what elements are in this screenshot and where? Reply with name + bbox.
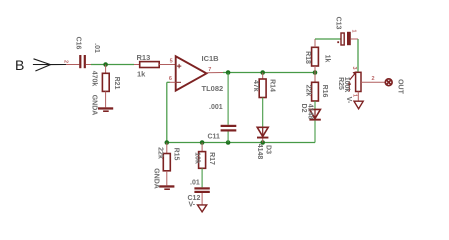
resistor R21 bbox=[105, 65, 107, 74]
svg-text:2: 2 bbox=[63, 60, 69, 63]
wire bottom feedback net bbox=[167, 142, 315, 144]
svg-text:R15: R15 bbox=[173, 148, 180, 161]
svg-text:R25: R25 bbox=[337, 77, 344, 90]
wire R25 wiper to OUT bbox=[361, 81, 385, 83]
svg-text:TL082: TL082 bbox=[202, 84, 224, 93]
svg-text:47k: 47k bbox=[252, 80, 259, 92]
node junction C11 bottom bbox=[226, 140, 231, 145]
node junction R17 bbox=[200, 140, 205, 145]
node junction D3 bbox=[260, 140, 265, 145]
wire feedback vertical bbox=[166, 82, 168, 142]
svg-text:D3: D3 bbox=[265, 145, 272, 154]
svg-text:.01: .01 bbox=[93, 43, 100, 53]
svg-text:.01: .01 bbox=[190, 180, 200, 187]
supply V- (C12) bbox=[198, 205, 207, 212]
wire R16 to D2 bbox=[314, 101, 316, 109]
svg-text:IC1B: IC1B bbox=[202, 54, 220, 63]
svg-text:4148: 4148 bbox=[307, 104, 314, 120]
resistor R15 bbox=[166, 143, 168, 154]
wire pin stub to C16 bbox=[66, 64, 79, 66]
svg-text:OUT: OUT bbox=[397, 79, 404, 95]
svg-text:R14: R14 bbox=[269, 79, 276, 92]
svg-text:GNDA: GNDA bbox=[153, 168, 160, 189]
svg-text:.001: .001 bbox=[209, 104, 223, 111]
node junction C11 top bbox=[226, 70, 231, 75]
svg-text:V-: V- bbox=[189, 202, 196, 209]
node junction R18/R16 bbox=[313, 70, 318, 75]
node junction R15 bbox=[165, 140, 170, 145]
svg-text:5: 5 bbox=[170, 59, 173, 65]
svg-text:4148: 4148 bbox=[256, 144, 263, 160]
svg-text:C16: C16 bbox=[75, 37, 82, 50]
svg-text:10k: 10k bbox=[193, 152, 200, 164]
svg-text:R21: R21 bbox=[113, 77, 120, 90]
capacitor C16 bbox=[79, 55, 86, 68]
svg-text:C13: C13 bbox=[334, 17, 341, 30]
svg-text:1k: 1k bbox=[323, 55, 330, 63]
resistor R16 bbox=[314, 73, 316, 83]
svg-text:B: B bbox=[15, 57, 24, 73]
node junction R14 top bbox=[260, 70, 265, 75]
wire R18 to C13 bbox=[315, 38, 341, 40]
pad OUT bbox=[385, 79, 392, 86]
wire R17 to C12 bbox=[201, 168, 203, 187]
svg-text:3: 3 bbox=[351, 66, 357, 69]
svg-text:2: 2 bbox=[372, 76, 375, 82]
wire op-amp inverting input bbox=[169, 81, 176, 83]
capacitor C13 (polarized) bbox=[341, 33, 344, 45]
resistor R14 bbox=[262, 73, 264, 80]
svg-text:6: 6 bbox=[169, 76, 172, 82]
svg-text:V-: V- bbox=[345, 97, 352, 104]
diode D2 bbox=[310, 109, 321, 118]
capacitor C11 bbox=[227, 73, 229, 125]
svg-text:D2: D2 bbox=[300, 104, 307, 113]
connector B (3-prong fan) bbox=[33, 59, 66, 71]
svg-text:R13: R13 bbox=[137, 53, 151, 62]
svg-text:470k: 470k bbox=[91, 71, 98, 87]
svg-text:GNDA: GNDA bbox=[91, 95, 98, 116]
svg-text:1: 1 bbox=[351, 29, 357, 32]
resistor R18 bbox=[312, 47, 319, 66]
wire op-amp output net bbox=[207, 72, 224, 74]
capacitor C12 bbox=[194, 187, 209, 189]
svg-text:C11: C11 bbox=[208, 134, 221, 141]
wire input net bbox=[91, 64, 134, 66]
svg-text:7: 7 bbox=[208, 67, 211, 73]
op-amp IC1B bbox=[176, 56, 207, 90]
resistor R17 bbox=[201, 143, 203, 152]
ground GNDA (left) bbox=[98, 107, 113, 109]
wire R14 to D3 bbox=[262, 98, 264, 128]
svg-text:100k: 100k bbox=[343, 77, 350, 93]
wire C13 to R25 bbox=[357, 39, 359, 72]
svg-text:R17: R17 bbox=[208, 152, 215, 165]
node junction at C16/R21 bbox=[103, 62, 108, 67]
wire R25 pin1 down bbox=[357, 92, 359, 101]
supply V- (R25) bbox=[354, 101, 363, 109]
resistor R13 bbox=[134, 64, 140, 66]
ground GNDA (R15) bbox=[159, 185, 174, 187]
diode D3 bbox=[257, 127, 268, 136]
svg-text:22k: 22k bbox=[305, 85, 312, 97]
svg-text:R16: R16 bbox=[321, 85, 328, 98]
svg-text:R18: R18 bbox=[304, 51, 311, 64]
svg-text:22k: 22k bbox=[157, 147, 164, 159]
svg-text:1k: 1k bbox=[137, 70, 146, 79]
